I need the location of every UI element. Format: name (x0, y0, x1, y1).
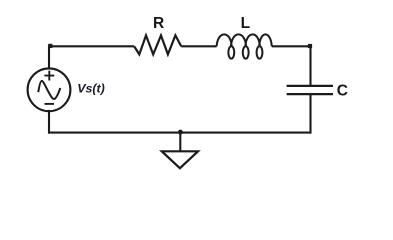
svg-text:R: R (153, 15, 164, 32)
svg-text:C: C (337, 83, 348, 100)
svg-text:L: L (241, 15, 250, 32)
svg-text:Vs(t): Vs(t) (77, 82, 105, 96)
